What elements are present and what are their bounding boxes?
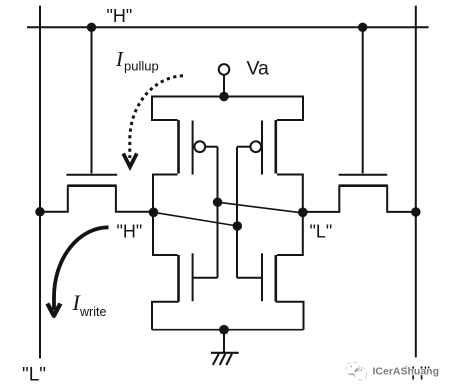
access transistor M5 channel xyxy=(67,184,117,187)
wire: M1 drain lead to node H xyxy=(153,175,178,214)
arrow Iwrite (solid) xyxy=(54,227,109,310)
wire: M4 gate lead xyxy=(237,277,262,279)
junction dot node H xyxy=(149,207,159,217)
access transistor M5 gate plate xyxy=(66,174,117,176)
access transistor M6 channel xyxy=(339,184,388,187)
arrowhead Ipullup xyxy=(123,154,137,167)
arrowhead Iwrite xyxy=(47,304,60,316)
wire: inverter supply rail xyxy=(152,96,303,98)
ground symbol xyxy=(211,353,239,365)
junction dot node L xyxy=(298,207,308,217)
wire: left access gate tap xyxy=(91,27,93,173)
wire: cross-couple diagonal node H to right gate xyxy=(154,212,238,226)
arrow Ipullup (dotted) xyxy=(130,76,183,158)
transistor M4 gate bar xyxy=(261,253,263,301)
transistor M3 channel (right PMOS) xyxy=(274,120,277,174)
wire: M5 drain to node H xyxy=(116,186,154,212)
transistor M4 channel (right NMOS) xyxy=(274,255,277,302)
bit line BL (left) xyxy=(39,6,41,359)
word line WL xyxy=(27,26,429,28)
wire: NMOS M4 drain lead xyxy=(277,212,303,255)
wire: M6 drain to BLB xyxy=(387,186,416,212)
transistor M1 channel (left PMOS) xyxy=(177,120,180,174)
transistor M2 channel (left NMOS) xyxy=(177,255,180,302)
junction dot ground rail xyxy=(219,325,229,335)
wire: M2 source lead xyxy=(152,302,179,330)
wire: right access gate tap xyxy=(362,27,364,173)
transistor M3 PMOS bubble xyxy=(250,141,261,152)
wire: PMOS M1 source lead xyxy=(152,96,178,121)
svg-text:"H": "H" xyxy=(107,6,133,26)
transistor M1 PMOS bubble xyxy=(194,141,205,152)
watermark logo xyxy=(346,362,367,380)
wire: left cross-couple column xyxy=(217,147,219,278)
bit line BLB (right) xyxy=(415,6,417,358)
junction dot WL / left gate xyxy=(87,23,96,32)
wire: M4 source lead xyxy=(276,302,304,330)
transistor M3 gate bar xyxy=(261,121,263,175)
junction dot BL / M5 xyxy=(35,207,45,217)
svg-text:Va: Va xyxy=(247,57,270,79)
svg-text:write: write xyxy=(79,305,106,319)
wire: M1 gate lead xyxy=(205,146,217,148)
wire: M5 source to BL xyxy=(40,186,68,212)
wire: cross-couple diagonal left gate to node L xyxy=(218,202,303,213)
transistor M2 gate bar xyxy=(192,253,194,301)
wire: PMOS M3 source lead xyxy=(277,96,303,121)
wire: Va stem xyxy=(223,75,225,97)
wire: M2 gate lead xyxy=(193,277,218,279)
access transistor M6 gate plate xyxy=(339,174,388,176)
wire: M3 drain lead to node L xyxy=(277,175,303,214)
junction dot right column xyxy=(233,221,243,231)
transistor M1 gate bar xyxy=(192,121,194,175)
wire: NMOS M2 drain lead xyxy=(153,212,178,255)
junction dot BLB / M6 xyxy=(411,207,421,217)
wire: M3 gate lead xyxy=(237,146,250,148)
svg-text:"H": "H" xyxy=(117,222,143,242)
junction dot WL / right gate xyxy=(358,23,367,32)
terminal Va circle xyxy=(219,64,230,75)
wire: M6 source to node L xyxy=(303,186,340,212)
svg-text:pullup: pullup xyxy=(124,58,159,73)
junction dot Va / rail xyxy=(219,92,229,102)
wire: ground rail xyxy=(152,329,304,331)
wire: ground stem xyxy=(223,330,225,353)
svg-text:I: I xyxy=(115,47,124,71)
junction dot left column xyxy=(213,197,223,207)
svg-text:"L": "L" xyxy=(310,221,333,241)
wire: right cross-couple column xyxy=(236,147,238,278)
svg-text:"L": "L" xyxy=(22,365,46,386)
svg-text:ICerAShuang: ICerAShuang xyxy=(373,366,440,378)
